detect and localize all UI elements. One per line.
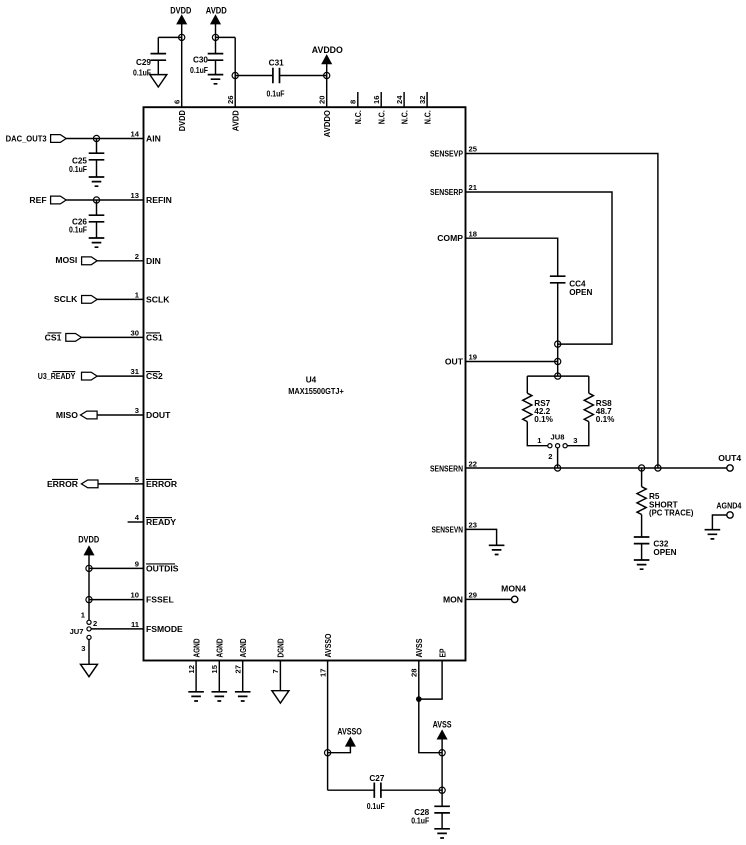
pin 4 READY stub: [128, 521, 144, 523]
svg-text:18: 18: [469, 229, 477, 238]
node junction AVDDO/C31: [324, 72, 330, 78]
svg-text:32: 32: [418, 96, 427, 104]
svg-text:SCLK: SCLK: [146, 294, 170, 304]
wire JU8 pin2 to SENSERN: [557, 448, 559, 468]
svg-text:25: 25: [469, 145, 478, 154]
ground for SENSEVN: [489, 545, 505, 554]
svg-text:13: 13: [131, 191, 139, 200]
terminal MON4: [512, 596, 518, 602]
node junction pin26/C31: [232, 72, 238, 78]
svg-text:0.1%: 0.1%: [534, 415, 553, 424]
svg-text:AVDD: AVDD: [206, 5, 227, 16]
svg-text:15: 15: [210, 664, 219, 673]
ground under pin 12: [188, 692, 204, 701]
pin 17 AVSSO: [327, 661, 329, 791]
pin 10 FSSEL wire: [89, 599, 144, 601]
svg-text:CS1: CS1: [45, 332, 62, 342]
svg-text:(PC TRACE): (PC TRACE): [649, 509, 694, 518]
terminal AGND4: [727, 512, 733, 518]
svg-text:2: 2: [135, 252, 139, 261]
node junction C27/C28: [439, 787, 445, 793]
jumper JU8 pin 2: [556, 444, 560, 448]
svg-text:AVSSO: AVSSO: [337, 727, 362, 738]
node junction SENSEVP/SENSERN: [655, 465, 661, 471]
svg-text:0.1%: 0.1%: [596, 415, 615, 424]
svg-text:0.1uF: 0.1uF: [190, 66, 208, 75]
wire CC4 to OUT node: [557, 283, 559, 376]
ground under C32: [634, 560, 650, 569]
svg-text:DAC_OUT3: DAC_OUT3: [6, 133, 47, 143]
wire N.C. pin 24 stub: [403, 92, 405, 107]
svg-text:MON4: MON4: [501, 583, 526, 593]
node dot EP/AVSS: [416, 696, 422, 702]
svg-text:AVDDO: AVDDO: [312, 45, 343, 56]
ground under C30: [208, 75, 224, 84]
pin 27 AGND: [242, 661, 244, 692]
node junction AVSSO: [325, 750, 331, 756]
svg-text:ERROR: ERROR: [146, 479, 178, 489]
capacitor C30 0.1uF: [208, 54, 224, 61]
ground under C28: [434, 829, 450, 838]
svg-text:FSMODE: FSMODE: [146, 624, 183, 634]
svg-text:C29: C29: [136, 58, 151, 67]
wire DVDD vertical to pin 6: [181, 24, 183, 107]
svg-text:SENSERP: SENSERP: [430, 187, 463, 197]
wire AVSS arrow to node: [441, 739, 443, 806]
svg-text:OPEN: OPEN: [653, 548, 676, 557]
ground under pin 27: [235, 692, 251, 701]
svg-text:C27: C27: [369, 774, 384, 783]
capacitor C27 0.1uF: [328, 789, 375, 791]
svg-text:SCLK: SCLK: [54, 294, 78, 304]
jumper JU8 pin 1: [548, 444, 552, 448]
svg-text:N.C.: N.C.: [353, 110, 363, 124]
wire DVDD to C29: [158, 36, 181, 38]
node junction FSSEL: [86, 597, 92, 603]
capacitor C31 0.1uF: [273, 68, 280, 83]
resistor RS8 48.7 0.1%: [588, 376, 590, 393]
svg-text:AVDDO: AVDDO: [322, 110, 332, 137]
svg-text:AIN: AIN: [146, 134, 161, 144]
svg-text:0.1uF: 0.1uF: [267, 90, 285, 99]
capacitor C32 OPEN: [634, 537, 650, 544]
svg-text:OUT4: OUT4: [718, 453, 741, 463]
node junction C26: [93, 197, 99, 203]
svg-text:0.1uF: 0.1uF: [411, 816, 429, 825]
svg-text:CC4: CC4: [569, 279, 586, 288]
svg-text:MON: MON: [443, 594, 463, 604]
node junction AVDD/C30: [212, 34, 218, 40]
svg-text:AVDD: AVDD: [231, 110, 241, 131]
svg-text:OUTDIS: OUTDIS: [146, 563, 179, 573]
svg-text:FSSEL: FSSEL: [146, 595, 174, 605]
wire SENSERP net: [466, 192, 613, 344]
ground (triangle) under DGND: [272, 691, 289, 703]
svg-text:DVDD: DVDD: [78, 534, 99, 545]
svg-text:29: 29: [469, 591, 477, 600]
node junction OUT: [555, 358, 561, 364]
svg-text:U3_READY: U3_READY: [38, 371, 76, 381]
svg-text:20: 20: [318, 96, 327, 104]
ground under C26: [89, 238, 105, 247]
wire REF to REFIN: [66, 199, 143, 201]
svg-text:DOUT: DOUT: [146, 410, 171, 420]
svg-text:READY: READY: [146, 517, 176, 527]
wire N.C. pin 32 stub: [426, 92, 428, 107]
svg-text:31: 31: [131, 367, 140, 376]
ground (triangle) under C29: [150, 75, 167, 87]
svg-text:MAX15500GTJ+: MAX15500GTJ+: [288, 387, 344, 396]
wire DVDD rail down to JU7: [88, 555, 90, 620]
svg-text:23: 23: [469, 521, 477, 530]
wire N.C. pin 8 stub: [357, 92, 359, 107]
svg-text:10: 10: [131, 591, 139, 600]
svg-text:N.C.: N.C.: [399, 110, 409, 124]
node junction DVDD/C29: [179, 34, 185, 40]
svg-text:9: 9: [135, 560, 139, 569]
resistor R5 SHORT (PC TRACE): [641, 468, 643, 487]
wire AVDD row to C31: [235, 75, 273, 77]
wire SENSEVP net: [466, 154, 658, 469]
wire C31 to AVDDO node: [280, 75, 327, 77]
svg-text:C31: C31: [269, 58, 284, 67]
svg-text:AGND: AGND: [238, 639, 248, 658]
pin 7 DGND: [279, 661, 281, 691]
node junction JU8-2/SENSERN: [555, 465, 561, 471]
svg-text:REFIN: REFIN: [146, 195, 172, 205]
svg-text:MISO: MISO: [56, 410, 78, 420]
svg-text:DIN: DIN: [146, 256, 161, 266]
jumper JU7 pin 2: [87, 627, 91, 631]
svg-text:7: 7: [271, 669, 280, 673]
svg-text:26: 26: [226, 96, 235, 104]
svg-text:22: 22: [469, 460, 477, 469]
node junction R5/SENSERN: [639, 465, 645, 471]
svg-text:N.C.: N.C.: [377, 110, 387, 124]
svg-text:DVDD: DVDD: [170, 5, 191, 16]
svg-text:0.1uF: 0.1uF: [69, 165, 87, 174]
wire N.C. pin 16 stub: [380, 92, 382, 107]
jumper JU7 pin 1: [87, 620, 91, 624]
pin 11 FSMODE wire from JU7 pin 2: [91, 628, 143, 630]
jumper JU8 pin 3: [563, 444, 567, 448]
pin 12 AGND: [195, 661, 197, 692]
svg-text:DGND: DGND: [276, 639, 286, 658]
svg-text:N.C.: N.C.: [422, 110, 432, 124]
svg-text:19: 19: [469, 353, 477, 362]
pin EP: [419, 661, 442, 700]
svg-text:AGND: AGND: [215, 639, 225, 658]
svg-text:OUT: OUT: [445, 357, 464, 367]
svg-text:2: 2: [548, 452, 552, 461]
svg-text:27: 27: [234, 665, 243, 673]
ground under pin 15: [212, 692, 228, 701]
resistor RS7 42.2 0.1%: [526, 376, 528, 393]
jumper JU7 pin 3: [87, 635, 91, 639]
svg-text:SENSEVP: SENSEVP: [430, 149, 463, 159]
op-amp U4 MAX15500GTJ+ body: [144, 107, 466, 660]
svg-text:AGND: AGND: [191, 639, 201, 658]
svg-text:21: 21: [469, 183, 478, 192]
wire AGND4 to ground: [712, 515, 726, 530]
svg-text:C30: C30: [193, 56, 208, 65]
svg-text:CS1: CS1: [146, 332, 163, 342]
svg-text:3: 3: [81, 644, 85, 653]
svg-text:U4: U4: [306, 376, 317, 385]
pin 15 AGND: [218, 661, 220, 692]
node junction CC4/SENSERP: [555, 341, 561, 347]
wire DAC_OUT3 to AIN: [66, 138, 143, 140]
wire AVDD over to pin 26: [216, 36, 236, 38]
svg-text:OPEN: OPEN: [569, 288, 592, 297]
capacitor C28 0.1uF: [434, 806, 450, 813]
svg-text:30: 30: [131, 329, 139, 338]
svg-text:14: 14: [131, 130, 140, 139]
svg-text:MOSI: MOSI: [55, 255, 77, 265]
node junction resistor rail: [555, 373, 561, 379]
ground for AGND4: [705, 530, 721, 539]
svg-text:0.1uF: 0.1uF: [69, 226, 87, 235]
svg-text:JU8: JU8: [551, 433, 565, 442]
wire AVDDO vertical to pin 20: [326, 64, 328, 107]
ground (triangle) under JU7: [81, 664, 98, 676]
wire SENSEVN to ground: [466, 529, 497, 545]
wire to AVSSO arrow: [328, 746, 351, 753]
svg-text:16: 16: [372, 96, 381, 104]
svg-text:2: 2: [93, 619, 97, 628]
svg-text:EP: EP: [437, 648, 447, 657]
wire OUT: [466, 361, 558, 363]
node junction AVSS: [439, 750, 445, 756]
wire MON to MON4: [466, 598, 512, 600]
svg-text:SENSERN: SENSERN: [430, 463, 463, 473]
svg-text:SENSEVN: SENSEVN: [432, 524, 464, 534]
svg-text:AVSSO: AVSSO: [323, 633, 333, 657]
wire resistor top rail: [527, 375, 589, 377]
svg-text:ERROR: ERROR: [47, 479, 79, 489]
svg-text:3: 3: [573, 436, 577, 445]
svg-text:12: 12: [187, 665, 196, 673]
svg-text:JU7: JU7: [70, 627, 84, 636]
pin 28 AVSS: [419, 661, 442, 753]
svg-text:DVDD: DVDD: [177, 110, 187, 131]
svg-text:8: 8: [349, 100, 358, 104]
capacitor C26 0.1uF: [96, 200, 98, 215]
svg-text:0.1uF: 0.1uF: [367, 802, 385, 811]
capacitor C29 0.1uF: [157, 37, 159, 53]
svg-text:AGND4: AGND4: [716, 500, 741, 510]
wire pin 26 vertical: [234, 37, 236, 107]
wire AVDD vertical to C30: [215, 24, 217, 54]
svg-text:AVSS: AVSS: [433, 719, 452, 730]
svg-text:COMP: COMP: [437, 233, 463, 243]
node junction OUTDIS: [86, 565, 92, 571]
capacitor C25 0.1uF: [96, 139, 98, 154]
wire JU7 pin3 to ground: [88, 640, 90, 665]
node junction C25: [93, 135, 99, 141]
svg-text:AVSS: AVSS: [414, 638, 424, 657]
pin 9 OUTDIS wire: [89, 567, 144, 569]
svg-text:REF: REF: [29, 195, 46, 205]
svg-text:CS2: CS2: [146, 371, 163, 381]
capacitor CC4 OPEN: [550, 276, 566, 283]
svg-text:3: 3: [135, 406, 139, 415]
svg-text:11: 11: [131, 620, 140, 629]
terminal OUT4: [727, 465, 733, 471]
ground under C25: [89, 177, 105, 186]
wire SENSERN net to OUT4: [466, 467, 727, 469]
svg-text:28: 28: [410, 669, 419, 677]
svg-text:17: 17: [318, 669, 327, 677]
wire COMP to CC4: [466, 238, 558, 276]
svg-text:24: 24: [395, 95, 404, 104]
svg-text:6: 6: [173, 100, 182, 104]
svg-text:0.1uF: 0.1uF: [133, 69, 151, 78]
